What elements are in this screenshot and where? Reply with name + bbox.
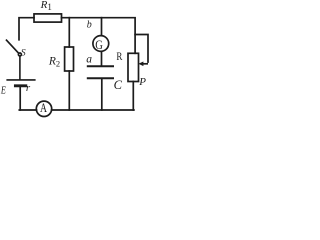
svg-text:a: a — [86, 54, 92, 66]
svg-text:b: b — [87, 19, 92, 30]
wire — [19, 109, 36, 111]
wire — [52, 109, 134, 111]
wire — [101, 79, 103, 110]
svg-text:E: E — [0, 84, 6, 96]
battery E short plate r — [15, 84, 25, 87]
wire — [132, 82, 134, 111]
galvanometer G — [93, 36, 109, 52]
svg-text:R1: R1 — [40, 0, 52, 12]
slider arrow P — [138, 62, 148, 67]
svg-text:R2: R2 — [48, 55, 60, 68]
resistor R1 — [34, 14, 62, 22]
wire — [101, 51, 103, 65]
wire — [68, 18, 70, 47]
wire — [101, 18, 103, 36]
ammeter A — [36, 101, 51, 116]
rheostat R — [128, 53, 139, 81]
svg-text:r: r — [26, 82, 31, 94]
wire — [19, 87, 21, 110]
svg-text:A: A — [40, 101, 47, 115]
svg-text:P: P — [138, 76, 146, 88]
wire — [19, 56, 21, 79]
wire — [68, 71, 70, 110]
wire — [135, 35, 148, 63]
wire — [62, 18, 136, 54]
switch S blade — [7, 40, 19, 53]
battery E long plate — [7, 79, 35, 81]
svg-text:C: C — [114, 78, 123, 92]
svg-text:G: G — [95, 37, 103, 52]
capacitor C — [88, 65, 113, 67]
svg-text:R: R — [116, 49, 122, 63]
wire — [19, 18, 34, 40]
svg-text:S: S — [21, 49, 26, 59]
resistor R2 — [65, 47, 74, 71]
switch S terminal — [18, 53, 21, 56]
